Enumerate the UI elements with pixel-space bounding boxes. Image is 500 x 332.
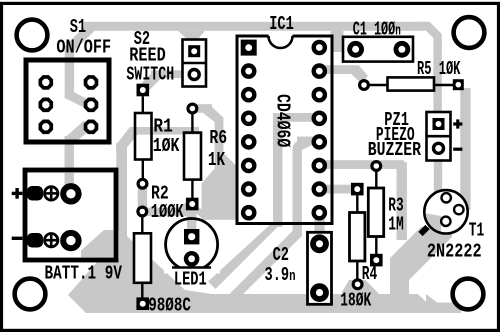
wire trace: bar right of battery box (116, 143, 127, 240)
svg-text:SWITCH: SWITCH (126, 63, 174, 85)
wire trace: IC pin11 row6 to R3 top pad and down-bar (324, 160, 404, 169)
reed switch S2 body (183, 40, 207, 87)
svg-text:R5 1ØK: R5 1ØK (417, 58, 461, 79)
wire trace: R6 bottom pad down to LED pad (187, 202, 196, 236)
IC1 right pads (312, 40, 328, 221)
svg-text:98Ø8C: 98Ø8C (148, 296, 191, 317)
gray trace into battery plus (over white fill) (65, 172, 74, 186)
mounting hole top-left (17, 20, 48, 51)
wire trace: R2 top pad to R6 bottom pad (142, 208, 184, 217)
LED1 (166, 219, 218, 271)
wire trace: wide diagonal from bottom band up to T1 (390, 227, 452, 295)
battery connector BATT.1 (25, 170, 116, 260)
svg-text:CD4Ø6Ø: CD4Ø6Ø (271, 94, 292, 147)
battery minus terminal blob (27, 233, 43, 248)
S1 pad 1 (39, 75, 54, 90)
label plus (12, 192, 23, 195)
wire trace: S1 diagonal to pad5 (65, 92, 92, 110)
resistor R6 (188, 104, 197, 113)
battery box border redraw (25, 170, 116, 260)
node: gray wedge inside T1 lower-left (423, 213, 441, 235)
resistor R5 (360, 81, 369, 90)
wire trace: top horizontal bus (84, 22, 425, 31)
svg-text:R1: R1 (153, 117, 172, 139)
label minus PZ1 (453, 148, 462, 151)
wire trace: IC pin r7 to R4 top pad (324, 185, 354, 194)
wire trace: R5 square pad down behind T1 (460, 88, 470, 210)
resistor R4 (351, 183, 364, 196)
resistor R3 (375, 170, 377, 188)
svg-text:1M: 1M (388, 213, 404, 235)
S1 pad 5 (84, 98, 99, 113)
wire trace: big ground blob left + bottom band (68, 146, 438, 313)
IC1 pin1 square pad (241, 40, 257, 56)
svg-text:BATT.1 9V: BATT.1 9V (45, 264, 123, 285)
capacitor C2 (308, 232, 332, 304)
battery plus crosshair (45, 187, 58, 200)
wire trace: R1 top pad to reed bottom pad (144, 76, 157, 89)
capacitor C1 (343, 37, 413, 62)
S2 bottom round pad (189, 70, 199, 80)
svg-text:S1: S1 (70, 16, 86, 38)
label minus (12, 237, 23, 240)
svg-text:C1 1ØØn: C1 1ØØn (353, 19, 401, 41)
label plus PZ1 (453, 122, 462, 125)
resistor R1 (137, 84, 150, 97)
wire trace: PZ1 bottom down behind T1 (434, 158, 442, 216)
wire trace: IC pin12 row5 elbow behind chip down to bottom band (297, 137, 320, 146)
wire trace: R6 bottom pad to IC pin8 (193, 204, 207, 220)
piezo buzzer PZ1 body (427, 112, 451, 161)
mounting hole top-right (454, 17, 485, 48)
svg-text:IC1: IC1 (269, 13, 294, 35)
svg-text:1ØØK: 1ØØK (151, 201, 184, 223)
battery minus crosshair (45, 234, 58, 247)
wire trace: S1 pad6 to battery plus (65, 121, 93, 144)
wire trace: bus right elbow down to PZ1 (417, 22, 442, 45)
S1 pad 3 (39, 120, 54, 135)
battery plus terminal blob (27, 186, 43, 201)
T1 hole pads (442, 193, 451, 202)
PZ1 plus square pad (433, 118, 445, 130)
svg-text:ON/OFF: ON/OFF (56, 38, 111, 59)
node above R3 (372, 162, 381, 171)
wire trace: bus down to C1 left pad (331, 28, 344, 52)
T1 tab (421, 227, 428, 234)
wire trace: reed switch wedge from bus (178, 31, 205, 42)
wire trace: bottom band right tail under corner circle (426, 294, 461, 313)
wire trace: IC pin15 row2 to R5 left pad (324, 65, 354, 74)
LED1 anode square pad (184, 229, 199, 244)
svg-text:2N2222: 2N2222 (427, 242, 482, 263)
wire trace: bus elbow down-left into S1 (69, 26, 92, 49)
battery plus ring pad (63, 186, 78, 201)
mounting hole bottom-left (15, 279, 46, 310)
wire trace: R6 top pad right-down to IC pin7 (192, 104, 212, 113)
svg-text:C2: C2 (273, 244, 289, 266)
IC1 left pads (241, 63, 257, 220)
transistor T1 (424, 190, 467, 233)
svg-text:R6: R6 (209, 129, 227, 150)
S1 pad 4 (84, 75, 99, 90)
wire trace: IC pin13 row4 behind chip, elbow down to bottom band (273, 113, 320, 122)
wire trace: R1/R6 horizontal + down-left to battery bar (130, 127, 199, 135)
PZ1 minus round pad (434, 143, 444, 153)
S2 top square pad (188, 45, 200, 57)
gray dip into battery corner (81, 230, 127, 258)
S1 pad 2 (39, 98, 54, 113)
svg-text:18ØK: 18ØK (340, 289, 371, 311)
resistor R2 (138, 207, 147, 216)
svg-text:1K: 1K (208, 150, 226, 171)
svg-text:3.9n: 3.9n (265, 264, 296, 286)
S1 pad 6 (84, 120, 99, 135)
mounting hole bottom-right (453, 279, 484, 310)
svg-text:T1: T1 (469, 219, 485, 241)
svg-text:BUZZER: BUZZER (368, 141, 422, 162)
IC1 body (237, 36, 332, 224)
LED1 flat bottom (164, 268, 220, 274)
IC1 notch (269, 35, 293, 47)
switch S1 box (26, 60, 109, 142)
wire trace: R1 bottom pad to R2 top pad (138, 183, 147, 212)
LED1 cathode pad (184, 251, 200, 267)
battery minus ring pad (63, 233, 78, 248)
svg-text:1ØK: 1ØK (153, 137, 180, 158)
wire trace: IC pin9 to C2 top pad stub (314, 216, 324, 238)
svg-text:R4: R4 (362, 262, 378, 284)
svg-text:LED1: LED1 (174, 269, 207, 291)
wire trace: vertical into S1 box (65, 46, 74, 98)
wire trace: R4 bottom pad stub to band (342, 280, 386, 313)
